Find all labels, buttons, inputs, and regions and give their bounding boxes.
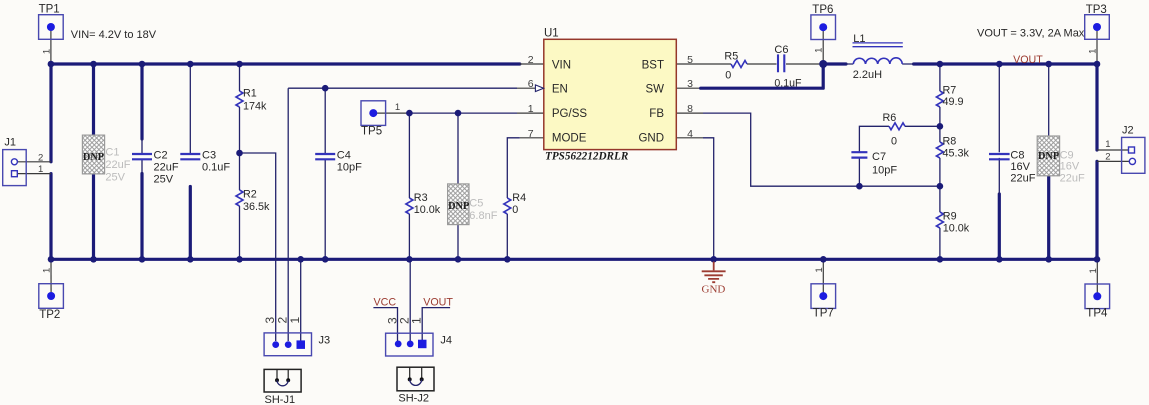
wire GND bottom rail + right bus lower: [51, 161, 1097, 259]
svg-text:7: 7: [528, 128, 534, 140]
svg-text:TP6: TP6: [812, 4, 833, 16]
svg-text:L1: L1: [853, 33, 865, 45]
node EN/C4: [322, 85, 329, 92]
svg-text:1: 1: [38, 164, 43, 175]
wire J2 pin 2 stub: [1097, 160, 1129, 162]
svg-text:10pF: 10pF: [337, 162, 362, 174]
node TP7: [820, 256, 827, 263]
wire EN pin stub: [517, 87, 536, 89]
svg-text:8: 8: [687, 103, 693, 115]
svg-text:R3: R3: [414, 192, 428, 204]
shunt SH-J1: [264, 369, 301, 392]
node C3 top: [187, 61, 194, 68]
svg-text:C7: C7: [872, 151, 886, 163]
U1 pin numbers: [528, 54, 693, 140]
wire U1 GND pin stub: [676, 137, 703, 139]
wire EN to J3 pin 2: [287, 88, 289, 341]
wire SW pin stub: [676, 87, 702, 89]
wire TP4 stub: [1096, 259, 1098, 296]
svg-text:R7: R7: [943, 85, 957, 97]
capacitor C9 (DNP): [1037, 136, 1059, 176]
node C3 bottom: [187, 256, 194, 263]
node C2 top: [139, 61, 146, 68]
wire R9 leads: [939, 186, 941, 259]
svg-text:SH-J1: SH-J1: [265, 394, 296, 405]
svg-text:49.9: 49.9: [943, 96, 964, 108]
wire C7 / R6 branch: [859, 126, 940, 186]
U1 pin names: [552, 59, 664, 144]
svg-text:C8: C8: [1010, 149, 1024, 161]
node R1 top: [236, 61, 243, 68]
svg-text:C6: C6: [774, 44, 788, 56]
resistor R7: [936, 91, 943, 107]
svg-text:PG/SS: PG/SS: [552, 108, 587, 120]
node C5 bottom: [455, 256, 462, 263]
wire SW net: [701, 64, 846, 88]
svg-text:1: 1: [288, 316, 302, 323]
wire divider node to J3 pin 3: [240, 153, 276, 341]
svg-text:1: 1: [395, 102, 400, 113]
svg-text:R2: R2: [243, 189, 257, 201]
svg-text:1: 1: [41, 49, 52, 54]
capacitor C3: [180, 154, 200, 159]
wire TP2 stub: [50, 259, 52, 296]
shunt SH-J2: [397, 367, 434, 391]
capacitor C7: [851, 152, 867, 157]
wire TP5 pin: [373, 112, 409, 114]
wire C2 top: [140, 64, 143, 139]
svg-text:16V: 16V: [1060, 161, 1080, 173]
svg-text:J4: J4: [440, 335, 452, 347]
svg-text:22uF: 22uF: [105, 159, 130, 171]
svg-text:1: 1: [42, 268, 53, 273]
svg-text:1: 1: [1088, 49, 1099, 54]
svg-text:6.8nF: 6.8nF: [469, 210, 497, 222]
node VOUT TP3: [1094, 61, 1101, 68]
wire C2 leads: [141, 139, 143, 174]
wire C1 column: [92, 64, 95, 259]
node C8 bottom: [996, 256, 1003, 263]
ground symbol GND: [702, 262, 726, 283]
svg-text:C2: C2: [154, 149, 168, 161]
svg-text:J3: J3: [319, 335, 331, 347]
svg-text:5: 5: [687, 54, 693, 66]
svg-text:VOUT: VOUT: [423, 297, 453, 309]
test point TP3: [1085, 15, 1110, 40]
connector J3: [264, 333, 311, 356]
connector J2: [1122, 137, 1145, 173]
svg-text:TP7: TP7: [813, 308, 834, 320]
wire MODE to R4 to GND: [507, 138, 520, 259]
svg-text:45.3k: 45.3k: [943, 148, 970, 160]
wire C3 top lead: [189, 64, 191, 154]
svg-text:0: 0: [725, 69, 731, 81]
wire C9 top lead: [1048, 64, 1050, 155]
svg-text:0.1uF: 0.1uF: [202, 162, 230, 174]
svg-text:2: 2: [528, 54, 534, 66]
node C1 bottom: [90, 256, 97, 263]
svg-text:GND: GND: [702, 283, 726, 295]
wire C8 leads: [998, 64, 1000, 194]
svg-text:U1: U1: [544, 28, 559, 40]
svg-text:6: 6: [528, 78, 534, 90]
resistor R1: [236, 91, 243, 107]
node FB C7: [856, 183, 863, 190]
node R9 bottom: [937, 256, 944, 263]
svg-text:25V: 25V: [154, 174, 174, 186]
svg-text:0: 0: [891, 136, 897, 148]
wire R2 leads: [239, 153, 241, 259]
connector J1: [3, 150, 27, 186]
svg-text:J2: J2: [1122, 125, 1134, 137]
wire J1 pin 2 stub: [17, 161, 51, 163]
node R1/R2 divider: [236, 150, 243, 157]
node R7/R8/R6: [937, 123, 944, 130]
resistor R4: [504, 198, 511, 214]
wire R3 leads: [408, 113, 410, 259]
svg-text:22uF: 22uF: [1010, 173, 1035, 185]
wire VIN top rail + left bus upper: [51, 64, 520, 162]
test point TP6: [811, 15, 836, 40]
svg-text:VOUT: VOUT: [1013, 54, 1043, 66]
capacitor C2: [132, 154, 152, 159]
wire MODE pin stub: [520, 137, 544, 139]
node C1 top: [90, 61, 97, 68]
wire J2 pin 1 stub: [1097, 149, 1128, 151]
node TP1 junction: [48, 61, 55, 68]
wire TP3 stub: [1096, 27, 1098, 64]
svg-text:0.1uF: 0.1uF: [774, 77, 802, 89]
wire U1 VIN pin stub: [520, 63, 544, 65]
resistor R8: [936, 142, 943, 158]
svg-text:10.0k: 10.0k: [414, 204, 441, 216]
svg-text:C9: C9: [1060, 149, 1074, 161]
svg-text:2: 2: [38, 152, 43, 163]
node R3 bottom: [406, 256, 413, 263]
wire TP7 stub: [822, 259, 824, 296]
wire L1 leads: [846, 63, 914, 65]
wire VOUT rail + right bus upper: [914, 64, 1097, 150]
svg-text:16V: 16V: [1010, 161, 1030, 173]
node C4 bottom: [322, 256, 329, 263]
svg-text:0: 0: [512, 204, 518, 216]
svg-text:J1: J1: [4, 137, 16, 149]
svg-text:SH-J2: SH-J2: [398, 393, 429, 405]
capacitor C4: [315, 154, 335, 159]
resistor R2: [236, 190, 243, 206]
resistor R9: [936, 212, 943, 228]
svg-text:DNP: DNP: [448, 201, 469, 212]
svg-text:2: 2: [1105, 152, 1110, 163]
svg-text:TP4: TP4: [1086, 307, 1108, 319]
wire VCC label to J4 pin 3: [373, 308, 397, 341]
wire VOUT label to J4 pin 1: [422, 308, 450, 341]
capacitor C6: [778, 54, 784, 72]
wire EN net: [288, 87, 517, 89]
wire FB net: [703, 113, 940, 186]
svg-text:VOUT = 3.3V, 2A Max: VOUT = 3.3V, 2A Max: [977, 28, 1085, 40]
test point TP5: [361, 101, 386, 126]
svg-text:BST: BST: [642, 59, 664, 71]
svg-text:1: 1: [1088, 268, 1099, 273]
resistor R3: [406, 198, 413, 214]
test point TP4: [1085, 284, 1110, 309]
svg-text:VIN: VIN: [552, 59, 571, 71]
svg-text:1: 1: [528, 103, 534, 115]
svg-text:SW: SW: [645, 83, 664, 95]
test point TP7: [811, 284, 836, 309]
test point TP1: [39, 15, 64, 40]
node VOUT R7: [937, 61, 944, 68]
capacitor C1 (DNP): [82, 135, 104, 174]
wire PG/SS pin stub: [517, 112, 544, 114]
svg-text:1: 1: [814, 267, 825, 272]
svg-text:1: 1: [1105, 139, 1110, 150]
op-amp U1 TPS562212DRLR body: [544, 39, 677, 149]
svg-text:DNP: DNP: [1038, 151, 1059, 162]
svg-text:TPS562212DRLR: TPS562212DRLR: [545, 151, 629, 163]
node C9 bottom: [1045, 256, 1052, 263]
node FB R8/R9: [937, 183, 944, 190]
svg-text:R9: R9: [943, 211, 957, 223]
node J3 pin1 gnd: [297, 256, 304, 263]
wire C4 column: [324, 88, 326, 259]
node SW/L1/TP6 junction: [819, 60, 827, 68]
svg-text:GND: GND: [638, 132, 664, 144]
capacitor C5 (DNP): [448, 184, 469, 225]
node TP2 junction: [48, 256, 55, 263]
svg-text:C5: C5: [469, 198, 483, 210]
svg-text:R8: R8: [943, 136, 957, 148]
wire C2 bottom: [140, 174, 143, 260]
node VOUT C9: [1045, 61, 1052, 68]
svg-text:TP1: TP1: [39, 3, 60, 15]
node U1 GND: [710, 256, 717, 263]
wire C8 bottom: [998, 194, 1001, 259]
svg-text:1: 1: [410, 317, 424, 324]
wire C5 column: [457, 113, 459, 259]
wire R8 leads: [939, 126, 941, 186]
wire U1 GND pin to rail: [703, 138, 714, 259]
wire C9 bottom: [1047, 176, 1050, 259]
svg-text:C4: C4: [337, 149, 351, 161]
wire GND to J3 pin 1: [300, 259, 302, 341]
resistor R5: [731, 61, 747, 68]
inductor L1: [853, 43, 903, 64]
node VOUT C8: [996, 61, 1003, 68]
wire GND to J4 pin 2: [409, 259, 411, 341]
resistor R6: [889, 123, 905, 130]
wire FB pin stub: [676, 112, 703, 114]
svg-text:DNP: DNP: [83, 152, 104, 163]
svg-text:174k: 174k: [243, 101, 267, 113]
node PG/SS R3: [406, 110, 413, 117]
svg-text:25V: 25V: [105, 171, 125, 183]
test point TP2: [39, 284, 64, 309]
svg-text:10pF: 10pF: [872, 164, 897, 176]
node R4 bottom: [504, 256, 511, 263]
svg-text:R1: R1: [243, 88, 257, 100]
node TP4 junction: [1094, 256, 1101, 263]
svg-text:VCC: VCC: [374, 297, 397, 309]
svg-text:R6: R6: [883, 112, 897, 124]
wire R7 leads: [939, 64, 941, 126]
svg-text:22uF: 22uF: [154, 162, 179, 174]
svg-text:1: 1: [814, 48, 825, 53]
svg-text:2.2uH: 2.2uH: [853, 69, 882, 81]
svg-text:R5: R5: [724, 51, 738, 63]
svg-text:EN: EN: [552, 83, 568, 95]
svg-text:3: 3: [687, 78, 693, 90]
svg-text:R4: R4: [512, 192, 526, 204]
svg-text:10.0k: 10.0k: [943, 223, 970, 235]
svg-text:TP3: TP3: [1086, 4, 1107, 16]
capacitor C8: [989, 154, 1010, 159]
wire C3 bottom: [189, 187, 192, 260]
wire BST - R5 - C6 net: [676, 63, 823, 65]
svg-text:36.5k: 36.5k: [243, 201, 270, 213]
wire PG/SS net: [409, 112, 517, 114]
svg-text:FB: FB: [649, 108, 664, 120]
svg-text:4: 4: [687, 128, 693, 140]
svg-text:MODE: MODE: [552, 132, 587, 144]
wire J1 pin 1 stub: [17, 173, 51, 175]
connector J4: [386, 333, 433, 356]
svg-text:22uF: 22uF: [1060, 172, 1085, 184]
svg-text:TP5: TP5: [361, 126, 382, 138]
node R2 bottom: [236, 256, 243, 263]
svg-text:C1: C1: [105, 147, 119, 159]
wire TP6 stub: [822, 27, 824, 64]
U1 EN pin input arrow: [535, 85, 543, 92]
node C2 bottom: [139, 256, 146, 263]
svg-text:VIN= 4.2V to 18V: VIN= 4.2V to 18V: [71, 29, 157, 41]
node PG/SS C5: [455, 110, 462, 117]
svg-text:TP2: TP2: [39, 309, 60, 321]
wire R1 leads: [239, 64, 241, 153]
wire TP1 stub: [50, 27, 52, 64]
svg-text:C3: C3: [202, 149, 216, 161]
